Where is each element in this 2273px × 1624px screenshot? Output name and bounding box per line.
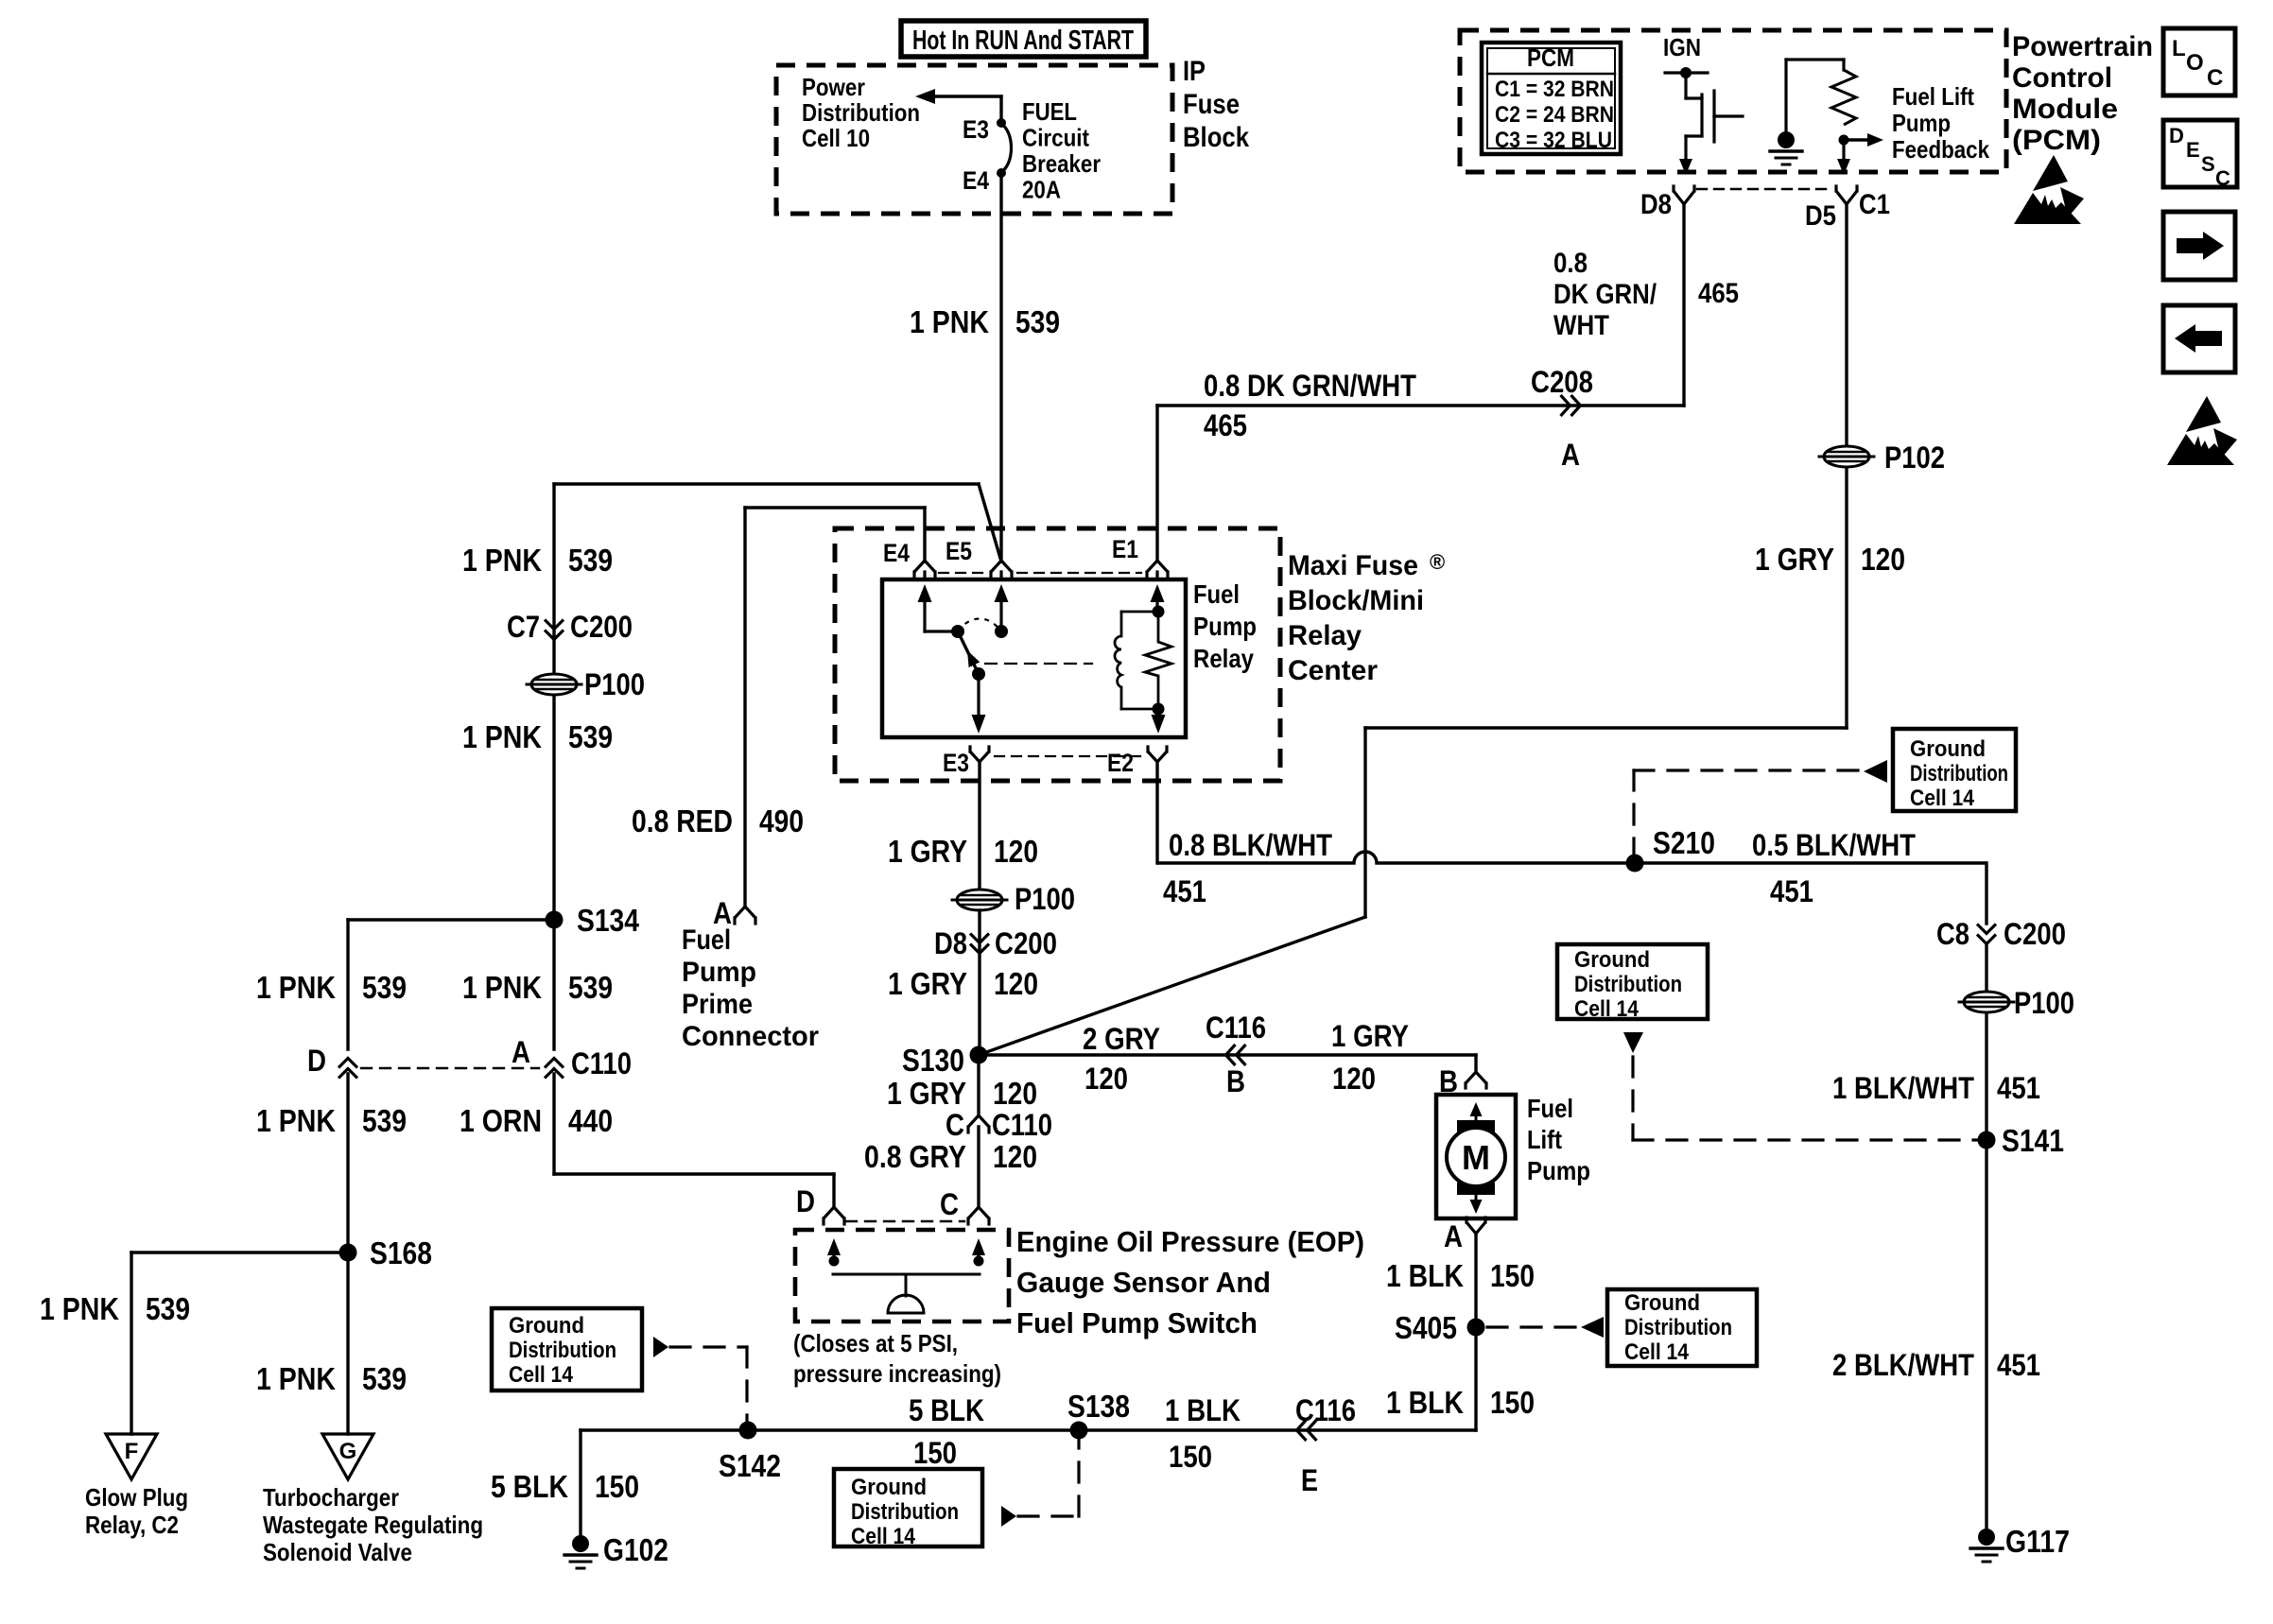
- svg-text:2 BLK/WHT: 2 BLK/WHT: [1832, 1348, 1974, 1382]
- svg-text:0.8 GRY: 0.8 GRY: [864, 1139, 966, 1174]
- svg-text:Relay: Relay: [1288, 620, 1362, 651]
- svg-text:Cell 14: Cell 14: [1624, 1339, 1690, 1365]
- svg-text:C1: C1: [1859, 189, 1890, 220]
- svg-text:IP: IP: [1183, 56, 1206, 87]
- svg-text:451: 451: [1997, 1071, 2040, 1105]
- svg-text:WHT: WHT: [1553, 310, 1609, 341]
- svg-text:C2 = 24 BRN: C2 = 24 BRN: [1495, 102, 1614, 128]
- svg-text:G117: G117: [2005, 1524, 2070, 1559]
- svg-text:1 GRY: 1 GRY: [1331, 1019, 1409, 1053]
- svg-text:(PCM): (PCM): [2012, 125, 2101, 156]
- svg-text:C116: C116: [1206, 1011, 1266, 1045]
- svg-text:539: 539: [568, 543, 613, 578]
- svg-text:S210: S210: [1653, 825, 1715, 860]
- svg-text:Connector: Connector: [682, 1021, 819, 1052]
- svg-text:120: 120: [1861, 542, 1905, 577]
- svg-text:Cell 14: Cell 14: [509, 1362, 574, 1388]
- svg-text:1 BLK: 1 BLK: [1386, 1258, 1464, 1293]
- svg-text:(Closes at 5 PSI,: (Closes at 5 PSI,: [793, 1329, 958, 1357]
- svg-text:120: 120: [993, 1139, 1037, 1174]
- svg-text:5 BLK: 5 BLK: [491, 1469, 568, 1504]
- svg-text:Fuse: Fuse: [1183, 89, 1240, 120]
- svg-text:451: 451: [1770, 874, 1813, 908]
- svg-text:1 BLK: 1 BLK: [1386, 1385, 1464, 1420]
- svg-text:S130: S130: [902, 1043, 964, 1078]
- svg-text:Prime: Prime: [682, 989, 753, 1020]
- svg-text:Fuel: Fuel: [1527, 1094, 1573, 1123]
- svg-text:C: C: [940, 1187, 959, 1221]
- svg-text:120: 120: [994, 966, 1038, 1001]
- svg-text:1 BLK: 1 BLK: [1165, 1393, 1241, 1427]
- svg-text:C: C: [2215, 166, 2230, 190]
- svg-text:E: E: [1301, 1463, 1318, 1497]
- svg-text:C208: C208: [1531, 365, 1593, 399]
- svg-text:S142: S142: [719, 1448, 781, 1483]
- svg-text:Pump: Pump: [1527, 1156, 1590, 1185]
- svg-text:1 PNK: 1 PNK: [256, 970, 336, 1005]
- svg-text:465: 465: [1698, 278, 1739, 309]
- svg-text:120: 120: [993, 1076, 1037, 1111]
- svg-text:0.8 RED: 0.8 RED: [632, 803, 733, 838]
- svg-text:Module: Module: [2012, 94, 2118, 125]
- svg-text:L: L: [2172, 36, 2186, 61]
- svg-text:®: ®: [1430, 550, 1445, 574]
- svg-text:E3: E3: [963, 115, 989, 144]
- svg-text:150: 150: [1490, 1385, 1535, 1420]
- svg-text:S138: S138: [1067, 1389, 1130, 1424]
- svg-text:PCM: PCM: [1527, 43, 1574, 72]
- svg-text:pressure increasing): pressure increasing): [793, 1359, 1001, 1388]
- svg-text:C200: C200: [2004, 917, 2066, 951]
- svg-text:Control: Control: [2012, 62, 2112, 94]
- svg-text:539: 539: [1015, 304, 1060, 339]
- svg-text:C1 = 32 BRN: C1 = 32 BRN: [1495, 77, 1614, 102]
- svg-text:C: C: [2207, 65, 2223, 91]
- svg-text:Cell 10: Cell 10: [802, 124, 870, 152]
- svg-text:E1: E1: [1112, 535, 1138, 563]
- svg-text:1 GRY: 1 GRY: [887, 1076, 966, 1111]
- svg-text:Cell 14: Cell 14: [851, 1524, 916, 1549]
- svg-text:C7: C7: [507, 610, 540, 644]
- svg-text:A: A: [512, 1035, 530, 1069]
- svg-text:2 GRY: 2 GRY: [1083, 1022, 1160, 1056]
- svg-text:G: G: [339, 1439, 357, 1464]
- svg-text:150: 150: [1490, 1258, 1535, 1293]
- svg-text:5 BLK: 5 BLK: [909, 1393, 984, 1427]
- svg-text:Relay, C2: Relay, C2: [85, 1511, 179, 1539]
- svg-text:150: 150: [595, 1469, 639, 1504]
- svg-text:1 PNK: 1 PNK: [256, 1103, 336, 1138]
- svg-text:DK GRN/: DK GRN/: [1553, 279, 1657, 310]
- svg-text:Powertrain: Powertrain: [2012, 31, 2153, 62]
- svg-text:Feedback: Feedback: [1892, 135, 1989, 164]
- svg-text:Distribution: Distribution: [1910, 761, 2008, 786]
- svg-text:C110: C110: [992, 1108, 1052, 1142]
- svg-text:C110: C110: [571, 1046, 632, 1080]
- svg-text:Distribution: Distribution: [1624, 1315, 1732, 1340]
- svg-text:Wastegate Regulating: Wastegate Regulating: [263, 1511, 483, 1539]
- svg-text:0.8: 0.8: [1553, 248, 1588, 279]
- svg-text:Ground: Ground: [509, 1313, 584, 1339]
- svg-text:Breaker: Breaker: [1022, 149, 1101, 178]
- svg-text:Engine Oil Pressure (EOP): Engine Oil Pressure (EOP): [1016, 1225, 1364, 1258]
- svg-text:1 BLK/WHT: 1 BLK/WHT: [1832, 1071, 1974, 1105]
- svg-text:Fuel: Fuel: [682, 924, 731, 956]
- svg-text:Maxi Fuse: Maxi Fuse: [1288, 550, 1418, 581]
- svg-text:1 PNK: 1 PNK: [40, 1291, 119, 1326]
- svg-text:20A: 20A: [1022, 176, 1061, 204]
- svg-text:C200: C200: [570, 610, 633, 644]
- svg-text:1 PNK: 1 PNK: [462, 543, 542, 578]
- svg-text:539: 539: [568, 719, 613, 754]
- svg-text:Circuit: Circuit: [1022, 124, 1089, 152]
- svg-text:C: C: [946, 1108, 964, 1142]
- svg-text:Relay: Relay: [1193, 644, 1254, 673]
- svg-text:0.8 BLK/WHT: 0.8 BLK/WHT: [1169, 828, 1332, 862]
- svg-text:Turbocharger: Turbocharger: [263, 1483, 399, 1512]
- svg-text:Pump: Pump: [1193, 612, 1257, 641]
- svg-text:Fuel Lift: Fuel Lift: [1892, 82, 1974, 111]
- svg-text:S: S: [2201, 152, 2215, 176]
- svg-text:539: 539: [362, 1103, 407, 1138]
- svg-text:Distribution: Distribution: [802, 98, 920, 127]
- svg-text:P100: P100: [1015, 882, 1075, 916]
- svg-text:539: 539: [146, 1291, 190, 1326]
- svg-text:Pump: Pump: [1892, 109, 1951, 137]
- svg-text:465: 465: [1204, 408, 1247, 442]
- svg-text:B: B: [1226, 1064, 1245, 1098]
- svg-text:539: 539: [568, 970, 613, 1005]
- svg-text:IGN: IGN: [1663, 33, 1701, 61]
- svg-text:1 GRY: 1 GRY: [888, 966, 967, 1001]
- svg-text:Hot In RUN And START: Hot In RUN And START: [912, 26, 1134, 56]
- svg-text:Ground: Ground: [1624, 1290, 1700, 1316]
- svg-text:E4: E4: [883, 539, 910, 567]
- svg-text:C8: C8: [1936, 917, 1969, 951]
- svg-text:1 GRY: 1 GRY: [888, 834, 967, 869]
- svg-text:0.5 BLK/WHT: 0.5 BLK/WHT: [1752, 828, 1916, 862]
- svg-text:Ground: Ground: [1574, 947, 1650, 973]
- svg-text:A: A: [1444, 1219, 1463, 1253]
- svg-text:Cell 14: Cell 14: [1910, 786, 1975, 811]
- svg-text:E3: E3: [943, 749, 969, 777]
- svg-text:Cell 14: Cell 14: [1574, 996, 1640, 1022]
- svg-text:539: 539: [362, 970, 407, 1005]
- svg-text:S405: S405: [1395, 1310, 1457, 1345]
- svg-text:E4: E4: [963, 166, 989, 195]
- svg-text:A: A: [1561, 438, 1580, 472]
- svg-text:P100: P100: [2014, 986, 2074, 1020]
- svg-text:D8: D8: [1640, 189, 1672, 220]
- svg-text:120: 120: [1332, 1062, 1376, 1096]
- svg-text:S134: S134: [577, 903, 640, 938]
- svg-text:1 PNK: 1 PNK: [910, 304, 989, 339]
- svg-text:150: 150: [913, 1436, 957, 1470]
- svg-text:C3 = 32 BLU: C3 = 32 BLU: [1495, 128, 1612, 153]
- svg-text:1 ORN: 1 ORN: [460, 1103, 542, 1138]
- svg-text:S168: S168: [370, 1235, 432, 1270]
- svg-text:O: O: [2186, 50, 2204, 76]
- svg-text:E: E: [2186, 138, 2200, 162]
- svg-text:Distribution: Distribution: [851, 1499, 959, 1525]
- svg-text:Block/Mini: Block/Mini: [1288, 585, 1424, 616]
- svg-text:D8: D8: [934, 926, 967, 960]
- svg-text:1 PNK: 1 PNK: [462, 970, 542, 1005]
- svg-text:P100: P100: [584, 667, 645, 701]
- svg-text:Ground: Ground: [851, 1475, 927, 1500]
- svg-text:Block: Block: [1183, 122, 1249, 153]
- svg-text:150: 150: [1169, 1440, 1212, 1474]
- svg-text:Ground: Ground: [1910, 736, 1986, 762]
- svg-text:1 PNK: 1 PNK: [256, 1361, 336, 1396]
- svg-text:C200: C200: [995, 926, 1057, 960]
- svg-text:D: D: [796, 1184, 815, 1218]
- svg-text:F: F: [125, 1439, 139, 1464]
- svg-text:1 GRY: 1 GRY: [1755, 542, 1834, 577]
- svg-text:E5: E5: [946, 537, 972, 565]
- svg-text:Distribution: Distribution: [1574, 972, 1682, 997]
- svg-text:Center: Center: [1288, 655, 1378, 686]
- svg-text:D: D: [307, 1044, 326, 1078]
- svg-text:G102: G102: [603, 1532, 668, 1567]
- svg-text:P102: P102: [1884, 441, 1945, 475]
- svg-text:Gauge Sensor And: Gauge Sensor And: [1016, 1266, 1271, 1299]
- svg-text:539: 539: [362, 1361, 407, 1396]
- svg-text:451: 451: [1163, 874, 1206, 908]
- svg-text:490: 490: [759, 803, 804, 838]
- svg-text:Glow Plug: Glow Plug: [85, 1483, 188, 1512]
- svg-text:440: 440: [568, 1103, 613, 1138]
- svg-text:D: D: [2169, 124, 2184, 147]
- svg-text:Fuel: Fuel: [1193, 579, 1240, 609]
- svg-text:D5: D5: [1805, 200, 1836, 232]
- svg-text:FUEL: FUEL: [1022, 97, 1077, 126]
- svg-text:E2: E2: [1107, 749, 1134, 777]
- svg-text:Pump: Pump: [682, 957, 756, 988]
- svg-text:120: 120: [1084, 1062, 1128, 1096]
- svg-text:451: 451: [1997, 1348, 2040, 1382]
- svg-text:Distribution: Distribution: [509, 1338, 616, 1363]
- svg-text:M: M: [1462, 1138, 1490, 1177]
- svg-text:Lift: Lift: [1527, 1125, 1562, 1154]
- svg-text:1 PNK: 1 PNK: [462, 719, 542, 754]
- svg-text:S141: S141: [2002, 1123, 2064, 1158]
- svg-text:Fuel Pump Switch: Fuel Pump Switch: [1016, 1306, 1258, 1339]
- svg-text:120: 120: [994, 834, 1038, 869]
- svg-text:0.8 DK GRN/WHT: 0.8 DK GRN/WHT: [1204, 369, 1416, 403]
- svg-text:Power: Power: [802, 73, 865, 101]
- svg-text:Solenoid Valve: Solenoid Valve: [263, 1538, 412, 1566]
